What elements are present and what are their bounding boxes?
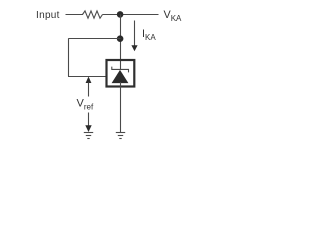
Vref measurement arrow down head <box>85 125 91 132</box>
ground under TL431 anode <box>116 133 125 139</box>
wire feedback top horizontal <box>69 38 121 40</box>
svg-text:IKA: IKA <box>142 28 156 42</box>
wire from Input to resistor <box>66 14 84 16</box>
wire from resistor to VKA <box>103 14 159 16</box>
Vref measurement arrow up head <box>86 77 92 84</box>
svg-text:Input: Input <box>36 10 60 21</box>
node junction dot feedback <box>117 35 124 42</box>
node junction dot at cathode top <box>117 11 124 18</box>
current arrow IKA <box>131 21 137 52</box>
svg-text:VKA: VKA <box>164 9 183 23</box>
ground under Vref <box>84 133 93 139</box>
wire feedback to REF pin <box>68 76 107 78</box>
Vref measurement line <box>88 83 90 127</box>
wire feedback left vertical <box>68 38 70 76</box>
wire cathode vertical <box>120 15 122 70</box>
resistor (input series resistor) <box>83 11 103 18</box>
label Vref background gap <box>76 97 94 113</box>
wire anode to ground <box>120 82 122 132</box>
TL431 device U1 box <box>107 60 135 87</box>
TL431 cathode bar (zener bar) <box>112 67 129 73</box>
TL431 anode triangle <box>112 70 129 83</box>
